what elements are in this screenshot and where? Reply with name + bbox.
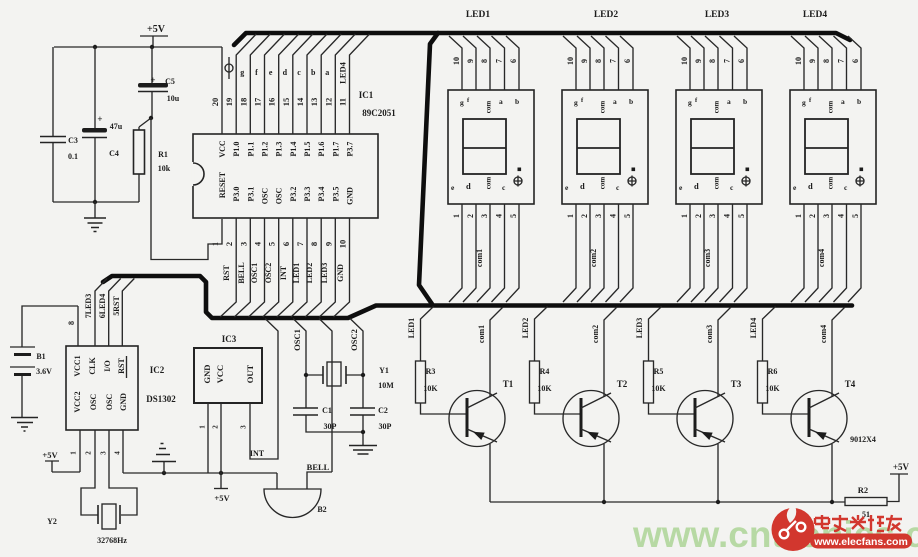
svg-text:P3.2: P3.2 — [289, 187, 298, 202]
svg-text:3: 3 — [238, 242, 248, 246]
svg-text:VCC1: VCC1 — [73, 355, 82, 376]
watermark elecfans red bar — [810, 534, 912, 549]
svg-text:10u: 10u — [167, 94, 180, 103]
wire emitter rail bottom — [490, 501, 845, 503]
svg-text:RST: RST — [117, 358, 126, 374]
capacitor C2 30P — [350, 406, 392, 445]
transistor T2 PNP — [535, 379, 628, 502]
svg-text:R4: R4 — [540, 367, 550, 376]
svg-text:OSC1: OSC1 — [250, 263, 259, 283]
bus: top segment bus — [234, 33, 850, 45]
wires IC2 pins 7,6,5 to bottom-left bus — [95, 279, 134, 347]
svg-text:IC3: IC3 — [222, 334, 237, 344]
svg-text:12: 12 — [323, 98, 333, 107]
svg-text:R1: R1 — [158, 150, 168, 159]
svg-text:com1: com1 — [475, 249, 484, 267]
svg-text:1: 1 — [70, 451, 78, 455]
svg-text:VCC: VCC — [218, 140, 227, 158]
IC1 top pin numbers 20..11 — [210, 97, 348, 106]
svg-text:P1.5: P1.5 — [303, 142, 312, 157]
wire OSC1 net from bus down — [293, 319, 306, 409]
svg-text:9: 9 — [323, 242, 333, 246]
svg-text:VCC2: VCC2 — [73, 391, 82, 412]
svg-text:b: b — [311, 68, 316, 77]
wire OSC2 net from bus down — [350, 319, 363, 409]
svg-text:11: 11 — [338, 98, 348, 106]
node dp symbol above pin19 — [225, 57, 233, 79]
wire IC1 bottom pins 2-10 to bottom bus — [220, 218, 349, 317]
svg-text:f: f — [255, 68, 258, 77]
+5V top-left power symbol — [140, 24, 168, 47]
svg-text:LED1: LED1 — [292, 263, 301, 283]
IC2 bottom pin numbers 1 2 3 4 — [70, 451, 122, 455]
svg-text:6: 6 — [281, 242, 291, 246]
IC3 pin numbers 1 2 3 — [199, 425, 248, 429]
ground symbol under Y1 — [349, 446, 377, 455]
svg-text:GND: GND — [336, 264, 345, 282]
svg-text:LED4: LED4 — [803, 10, 828, 20]
battery B1 3.6V — [10, 306, 78, 417]
svg-text:com1: com1 — [477, 325, 486, 343]
svg-text:20: 20 — [210, 98, 220, 107]
watermark elecfans logo circle — [772, 504, 815, 551]
svg-text:VCC: VCC — [215, 365, 225, 383]
svg-text:P1.6: P1.6 — [317, 142, 326, 157]
svg-text:R6: R6 — [768, 367, 778, 376]
svg-text:30P: 30P — [379, 422, 392, 431]
svg-text:LED2: LED2 — [521, 318, 530, 338]
svg-text:B1: B1 — [36, 352, 45, 361]
svg-text:LED1: LED1 — [407, 318, 416, 338]
svg-text:C3: C3 — [68, 136, 78, 145]
node junction T2 emitter — [602, 500, 606, 504]
svg-text:T4: T4 — [845, 379, 856, 389]
svg-text:8: 8 — [309, 242, 319, 246]
IC1 segment letters g f e d c b a above pins 18-12 — [240, 68, 329, 77]
svg-text:com2: com2 — [591, 325, 600, 343]
svg-text:GND: GND — [119, 393, 128, 411]
svg-text:I/O: I/O — [103, 360, 112, 372]
node junction C1/C2 bottom — [361, 430, 365, 434]
wire IC2 pin2 to crystal Y2 — [81, 430, 98, 515]
svg-text:+: + — [97, 114, 102, 124]
node junction Y1/OSC1 — [304, 373, 308, 377]
wire IC1 top pins 19-11 to top bus — [236, 34, 369, 134]
svg-text:10K: 10K — [765, 384, 780, 393]
display LED1 (7-segment) — [448, 36, 534, 397]
svg-text:89C2051: 89C2051 — [362, 108, 396, 118]
svg-text:P3.1: P3.1 — [246, 187, 255, 202]
node junction T4 emitter — [830, 500, 834, 504]
svg-text:P3.3: P3.3 — [303, 187, 312, 202]
IC1 bottom pin numbers 1..10 — [210, 240, 348, 249]
svg-text:C4: C4 — [109, 149, 119, 158]
svg-text:IC2: IC2 — [150, 365, 165, 375]
wire IC2 pin4 GND to ground rail — [122, 430, 124, 473]
node junction C4/ground rail — [93, 200, 97, 204]
node junction T3 emitter — [716, 500, 720, 504]
wire IC2 pin3 to crystal Y2 — [109, 430, 137, 515]
ground symbol top-left — [84, 202, 106, 232]
node junction C5/rail — [150, 45, 154, 49]
svg-text:1: 1 — [210, 242, 220, 246]
svg-text:com2: com2 — [589, 249, 598, 267]
svg-text:CLK: CLK — [88, 357, 97, 375]
wire +5V rail top-left — [54, 46, 222, 48]
svg-text:10K: 10K — [537, 384, 552, 393]
svg-text:OSC: OSC — [275, 188, 284, 205]
+5V symbol under IC3 — [214, 489, 230, 504]
svg-text:C2: C2 — [378, 406, 388, 415]
svg-text:8: 8 — [67, 321, 76, 325]
svg-text:R2: R2 — [858, 485, 868, 495]
svg-text:BELL: BELL — [307, 462, 330, 472]
resistor R5 10K — [644, 361, 667, 403]
resistor R6 10K — [758, 361, 781, 403]
svg-text:RESET: RESET — [218, 171, 227, 198]
svg-text:GND: GND — [346, 187, 355, 205]
node junction ground symbol / rail — [162, 471, 166, 475]
node junction Y1/OSC2 — [361, 373, 365, 377]
wire IC2 pin1 — [79, 430, 81, 472]
svg-text:RST: RST — [222, 265, 231, 281]
wire IC2 pin8 to battery — [77, 306, 79, 346]
svg-text:B2: B2 — [317, 505, 326, 514]
wire LED1 net from bus to resistor R3 — [421, 307, 434, 362]
svg-text:P3.7: P3.7 — [346, 142, 355, 157]
svg-text:0.1: 0.1 — [68, 152, 78, 161]
svg-text:19: 19 — [224, 98, 234, 107]
svg-text:Y1: Y1 — [379, 366, 389, 375]
svg-text:P3.5: P3.5 — [331, 187, 340, 202]
svg-text:15: 15 — [281, 98, 291, 107]
svg-text:a: a — [325, 68, 329, 77]
svg-text:LED4: LED4 — [749, 318, 758, 338]
node junction R1/C5/RST — [149, 116, 153, 120]
svg-text:17: 17 — [253, 97, 263, 106]
capacitor C4 electrolytic 47u — [82, 47, 123, 202]
svg-text:+5V: +5V — [147, 24, 166, 35]
node junction C4/rail — [93, 45, 97, 49]
wire RST net from R1/C5 down to IC1 pin1 — [151, 118, 222, 260]
svg-text:P1.1: P1.1 — [246, 142, 255, 157]
capacitor C3 — [40, 47, 78, 202]
wire LED2 net from bus to resistor R4 — [535, 307, 548, 362]
crystal Y2 32768Hz — [47, 504, 127, 545]
svg-text:OSC1: OSC1 — [292, 329, 302, 351]
wire ground rail IC2 area — [123, 472, 277, 474]
svg-text:com3: com3 — [705, 325, 714, 343]
op-amp IC3 body — [194, 334, 262, 403]
svg-text:P1.0: P1.0 — [232, 142, 241, 157]
svg-text:T3: T3 — [731, 379, 742, 389]
crystal Y1 10M — [306, 362, 394, 390]
transistor T4 PNP — [763, 379, 856, 502]
svg-text:2: 2 — [224, 242, 234, 246]
svg-text:+5V: +5V — [214, 493, 230, 503]
display LED4 (7-segment) — [790, 36, 876, 397]
svg-text:1: 1 — [199, 425, 207, 429]
svg-text:OSC2: OSC2 — [349, 329, 359, 351]
svg-text:LED2: LED2 — [305, 263, 314, 283]
bus: bottom bus (left step + right run) — [103, 276, 852, 318]
svg-text:g: g — [240, 68, 244, 77]
buzzer B2 dome — [264, 489, 321, 518]
svg-text:5RST: 5RST — [112, 296, 121, 316]
svg-text:LED3: LED3 — [705, 10, 730, 20]
svg-text:OSC: OSC — [105, 394, 114, 411]
svg-text:R3: R3 — [426, 367, 436, 376]
svg-text:3: 3 — [100, 451, 108, 455]
svg-text:com3: com3 — [703, 249, 712, 267]
svg-text:16: 16 — [267, 98, 277, 107]
IC2 inside pin-name labels — [73, 355, 128, 412]
wire BELL net right lead up to bus — [307, 319, 332, 490]
svg-text:10: 10 — [338, 240, 348, 249]
display LED2 (7-segment) — [562, 36, 648, 397]
wire LED4 net from bus to resistor R6 — [763, 307, 776, 362]
wire IC3 pin2 VCC down to +5V — [220, 403, 222, 489]
resistor R4 10K — [530, 361, 553, 403]
svg-text:14: 14 — [295, 97, 305, 106]
watermark chinese characters — [815, 515, 902, 531]
svg-text:www.elecfans.com: www.elecfans.com — [813, 536, 908, 548]
svg-text:e: e — [269, 68, 273, 77]
svg-text:LED3: LED3 — [320, 263, 329, 283]
svg-text:OSC: OSC — [89, 394, 98, 411]
svg-text:5: 5 — [267, 242, 277, 246]
+5V symbol bottom right — [890, 462, 910, 474]
svg-text:2: 2 — [212, 425, 220, 429]
svg-text:com4: com4 — [817, 249, 826, 267]
svg-text:9012X4: 9012X4 — [850, 435, 876, 444]
svg-text:R5: R5 — [654, 367, 664, 376]
wire INT net from IC3 pin3 OUT up to bus — [250, 319, 278, 460]
svg-text:LED2: LED2 — [594, 10, 619, 20]
node junction IC3 pin2 / rail — [219, 471, 223, 475]
+5V symbol left of IC2 pin1 — [42, 450, 80, 472]
ground symbol (inverted) on rail — [152, 444, 176, 474]
ground under battery — [11, 418, 38, 432]
wire R2 to +5V — [887, 474, 899, 502]
IC2 DS1302 body — [66, 346, 176, 430]
svg-text:P3.4: P3.4 — [317, 187, 326, 202]
capacitor C1 30P — [293, 406, 363, 432]
svg-text:OUT: OUT — [245, 364, 255, 383]
svg-text:3.6V: 3.6V — [36, 367, 52, 376]
resistor R2 — [845, 485, 887, 519]
svg-text:32768Hz: 32768Hz — [97, 536, 127, 545]
IC1 bottom net labels RST BELL OSC1 OSC2 INT LED1 LED2 LED3 GND — [222, 262, 345, 283]
svg-text:OSC2: OSC2 — [264, 263, 273, 283]
svg-text:13: 13 — [309, 98, 319, 107]
svg-text:LED1: LED1 — [466, 10, 491, 20]
resistor R1 10k — [134, 118, 171, 202]
svg-text:6LED4: 6LED4 — [98, 294, 107, 318]
svg-text:7LED3: 7LED3 — [84, 294, 93, 318]
svg-text:T1: T1 — [503, 379, 514, 389]
capacitor C5 electrolytic 10u — [138, 47, 180, 118]
svg-text:c: c — [297, 68, 301, 77]
svg-text:GND: GND — [202, 365, 212, 384]
IC3 inside labels GND VCC OUT — [202, 364, 255, 383]
svg-text:18: 18 — [238, 98, 248, 107]
svg-text:P1.3: P1.3 — [275, 142, 284, 157]
svg-text:com4: com4 — [819, 325, 828, 343]
svg-text:d: d — [283, 68, 288, 77]
svg-text:10K: 10K — [651, 384, 666, 393]
svg-text:C5: C5 — [165, 77, 175, 86]
svg-text:+5V: +5V — [42, 450, 58, 460]
wire LED3 net from bus to resistor R5 — [649, 307, 662, 362]
svg-text:INT: INT — [250, 449, 265, 458]
svg-text:DS1302: DS1302 — [146, 394, 176, 404]
wire IC3 pin1 GND to rail — [207, 403, 209, 473]
svg-text:T2: T2 — [617, 379, 628, 389]
wire bell left lead — [276, 473, 278, 489]
svg-text:+5V: +5V — [893, 462, 910, 472]
svg-text:LED3: LED3 — [635, 318, 644, 338]
transistor T3 PNP — [649, 379, 742, 502]
svg-text:P1.2: P1.2 — [261, 142, 270, 157]
svg-text:10k: 10k — [158, 164, 171, 173]
svg-text:10M: 10M — [378, 381, 394, 390]
display LED3 (7-segment) — [676, 36, 762, 397]
resistor R3 10K — [416, 361, 439, 403]
svg-text:P1.7: P1.7 — [331, 142, 340, 157]
svg-text:10K: 10K — [423, 384, 438, 393]
svg-text:+: + — [150, 75, 155, 85]
net labels 7LED3 6LED4 5RST — [84, 294, 121, 318]
wire IC1 pin20 VCC to +5V rail — [221, 47, 223, 134]
svg-text:IC1: IC1 — [359, 90, 374, 100]
svg-text:2: 2 — [85, 451, 93, 455]
transistor T1 PNP — [421, 379, 514, 502]
svg-text:3: 3 — [240, 425, 248, 429]
svg-text:BELL: BELL — [237, 262, 246, 283]
op-amp/MCU IC1 89C2051 body — [193, 90, 396, 218]
IC1 inside pin-name labels — [218, 140, 355, 205]
svg-text:Y2: Y2 — [47, 517, 57, 526]
svg-text:4: 4 — [114, 451, 122, 455]
svg-text:INT: INT — [279, 265, 288, 280]
svg-text:OSC: OSC — [261, 188, 270, 205]
svg-text:30P: 30P — [324, 422, 337, 431]
svg-text:P3.0: P3.0 — [232, 187, 241, 202]
svg-text:P1.4: P1.4 — [289, 142, 298, 157]
wire ground rail under C3 C4 R1 — [53, 201, 139, 203]
svg-text:47u: 47u — [110, 122, 123, 131]
svg-text:C1: C1 — [322, 406, 332, 415]
svg-text:LED4: LED4 — [338, 61, 348, 83]
bus: left vertical rail joining top bus to bottom bus — [419, 33, 438, 304]
